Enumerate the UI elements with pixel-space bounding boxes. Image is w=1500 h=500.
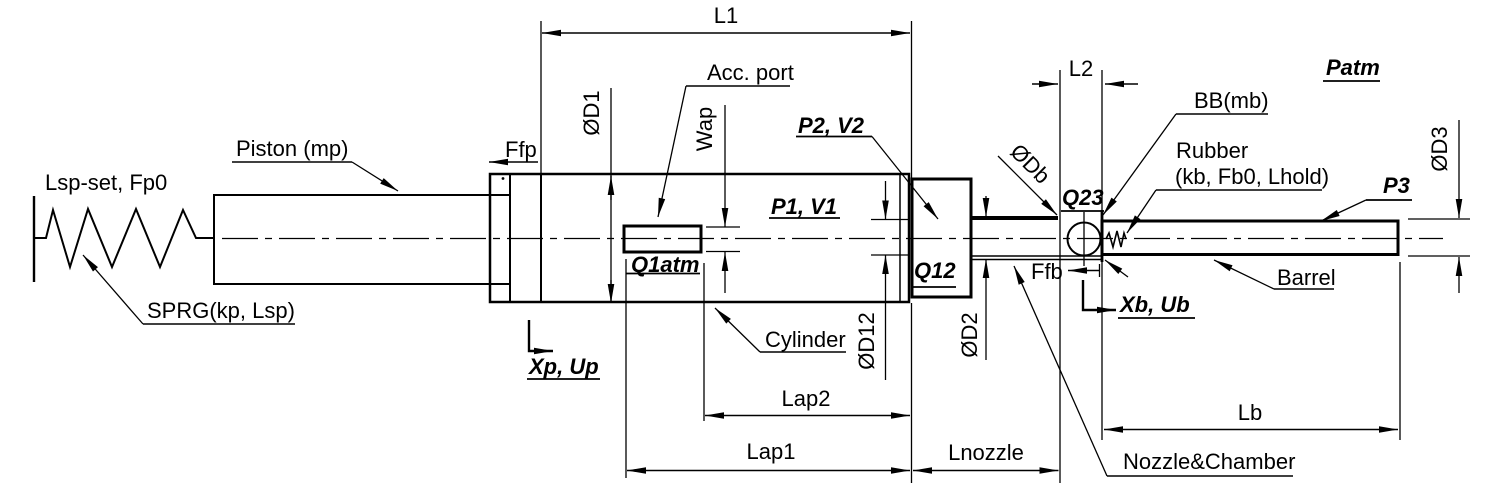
svg-text:Xp, Up: Xp, Up (527, 354, 599, 379)
svg-text:BB(mb): BB(mb) (1194, 88, 1269, 113)
svg-text:Ffp: Ffp (505, 137, 537, 162)
svg-text:Rubber: Rubber (1176, 138, 1248, 163)
svg-text:L1: L1 (714, 3, 738, 28)
svg-text:ØD1: ØD1 (579, 90, 604, 135)
svg-text:P2, V2: P2, V2 (798, 113, 865, 138)
svg-text:ØD3: ØD3 (1427, 126, 1452, 171)
svg-text:Acc. port: Acc. port (707, 60, 794, 85)
svg-text:Q23: Q23 (1062, 185, 1104, 210)
svg-text:ØD12: ØD12 (854, 312, 879, 369)
svg-text:(kb, Fb0, Lhold): (kb, Fb0, Lhold) (1175, 164, 1329, 189)
svg-text:Piston (mp): Piston (mp) (236, 136, 348, 161)
svg-text:SPRG(kp, Lsp): SPRG(kp, Lsp) (147, 298, 295, 323)
svg-text:Lb: Lb (1238, 400, 1262, 425)
svg-text:Ffb: Ffb (1031, 259, 1063, 284)
svg-text:Patm: Patm (1326, 55, 1380, 80)
svg-text:P1, V1: P1, V1 (771, 194, 837, 219)
svg-text:ØD2: ØD2 (957, 312, 982, 357)
svg-text:L2: L2 (1069, 56, 1093, 81)
svg-text:Q12: Q12 (914, 258, 956, 283)
svg-text:Barrel: Barrel (1277, 265, 1336, 290)
svg-text:Wap: Wap (692, 107, 717, 151)
svg-text:P3: P3 (1383, 173, 1410, 198)
svg-text:Lap1: Lap1 (747, 439, 796, 464)
svg-text:Cylinder: Cylinder (765, 327, 846, 352)
svg-text:Nozzle&Chamber: Nozzle&Chamber (1123, 449, 1295, 474)
svg-text:Xb, Ub: Xb, Ub (1118, 292, 1190, 317)
svg-text:Lsp-set, Fp0: Lsp-set, Fp0 (45, 170, 167, 195)
svg-text:Lap2: Lap2 (782, 386, 831, 411)
svg-text:Lnozzle: Lnozzle (948, 440, 1024, 465)
